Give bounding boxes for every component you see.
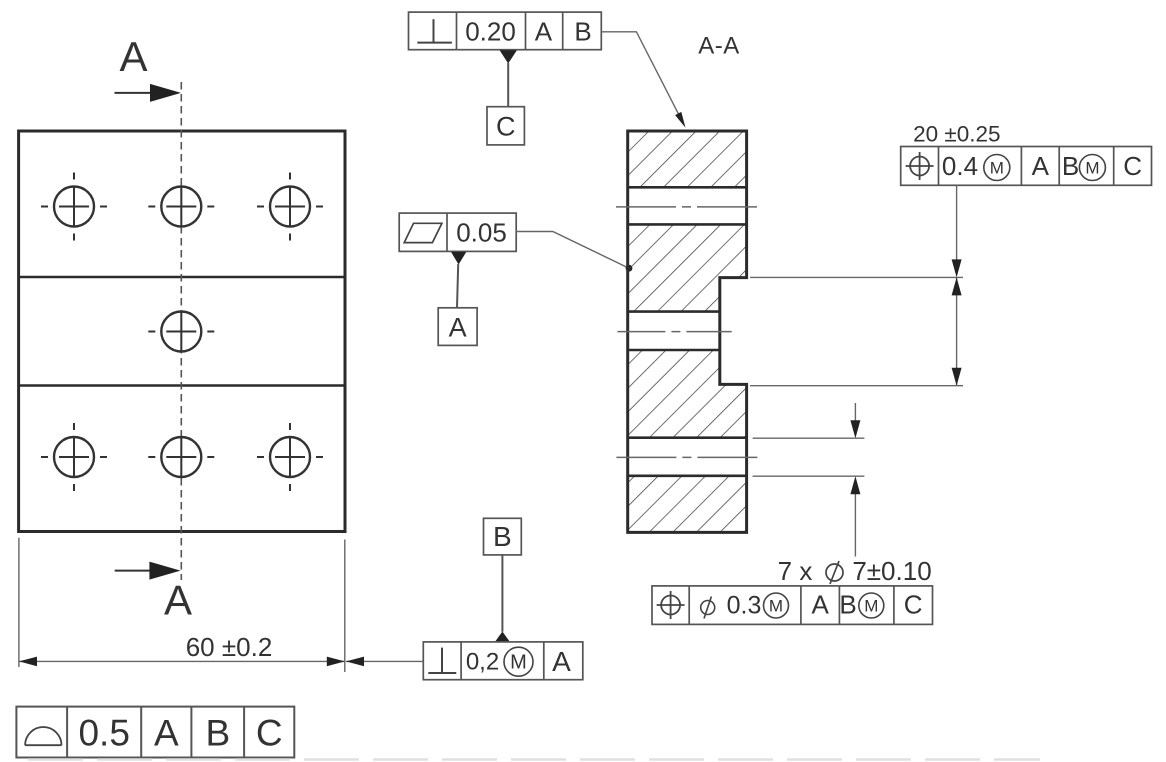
- perpendicularity symbol (bottom FCF): [428, 648, 456, 673]
- section outline: [628, 131, 747, 532]
- parallelism symbol: [404, 223, 442, 242]
- svg-text:C: C: [1123, 151, 1142, 181]
- position symbol (bottom FCF): [657, 591, 685, 619]
- datum triangle B: [495, 632, 510, 643]
- svg-text:20 ±0.25: 20 ±0.25: [913, 122, 1000, 147]
- svg-text:M: M: [510, 652, 527, 674]
- leader from FCF to extension line: [346, 657, 423, 667]
- section hatching: [620, 125, 755, 540]
- svg-text:A: A: [164, 577, 192, 624]
- svg-text:A-A: A-A: [698, 33, 740, 60]
- hole H1: [41, 173, 107, 241]
- datum leader B: [501, 555, 503, 632]
- front view edge line lower: [19, 384, 345, 386]
- perpendicularity symbol (top FCF): [417, 19, 452, 42]
- faint cropped caption line: [28, 758, 1040, 760]
- hole H4 (middle): [148, 312, 214, 352]
- centerline hole row 1: [616, 206, 759, 208]
- section arrow top: [115, 84, 182, 102]
- dia symbol: [701, 597, 715, 619]
- centerline hole row 2: [617, 331, 731, 333]
- hole H6: [148, 437, 214, 477]
- svg-text:0.05: 0.05: [456, 218, 507, 248]
- profile of a surface symbol: [25, 727, 61, 745]
- svg-text:7 x: 7 x: [778, 556, 813, 586]
- front view edge line upper: [19, 276, 345, 278]
- svg-text:M: M: [990, 159, 1004, 178]
- section arrow bottom: [115, 562, 181, 580]
- leader 0.05 to section left edge: [516, 232, 632, 272]
- front view outline: [19, 131, 345, 532]
- hole H7: [257, 423, 323, 491]
- svg-text:A: A: [812, 590, 830, 620]
- svg-text:A: A: [535, 17, 553, 47]
- datum triangle C: [500, 50, 517, 63]
- datum leader C: [507, 63, 509, 107]
- svg-text:0,2: 0,2: [466, 649, 499, 676]
- dim 20: dimension line: [952, 277, 962, 385]
- datum box C: [487, 107, 524, 145]
- dim text 7 x dia 7±0.10: [778, 556, 932, 586]
- dim 20: leader from FCF: [952, 185, 962, 277]
- svg-text:A: A: [1032, 151, 1050, 181]
- centerline hole row 3: [616, 456, 758, 458]
- dim 20: extension line bottom: [750, 385, 963, 387]
- FCF perpendicularity 0,2 M A (bottom): [423, 642, 583, 680]
- hole H2: [148, 187, 214, 227]
- svg-text:C: C: [496, 112, 516, 142]
- datum box A: [438, 308, 477, 346]
- dim 20: extension line top: [750, 276, 963, 278]
- svg-text:B: B: [839, 590, 856, 620]
- svg-text:B: B: [574, 17, 591, 47]
- dim 7: upper arrow: [850, 403, 860, 438]
- FCF position 0.4 (top right): [901, 147, 1152, 186]
- dim 7: lower arrow: [850, 476, 860, 556]
- FCF profile of surface 0.5 A B C (bottom left): [16, 707, 294, 758]
- section inner edge lines: [628, 187, 747, 476]
- dim 60: extension line left: [18, 538, 20, 667]
- section cutting line A-A (dashed): [180, 82, 182, 580]
- FCF parallelism 0.05: [399, 213, 516, 251]
- svg-text:B: B: [1062, 151, 1079, 181]
- svg-text:C: C: [256, 713, 283, 754]
- svg-text:C: C: [904, 590, 923, 620]
- datum leader A: [457, 264, 458, 308]
- dim 60: dimension line: [19, 657, 345, 667]
- svg-text:7±0.10: 7±0.10: [852, 556, 931, 586]
- svg-text:B: B: [493, 521, 512, 552]
- svg-text:M: M: [864, 597, 878, 616]
- position symbol (top right FCF): [906, 152, 934, 180]
- svg-text:B: B: [205, 713, 230, 754]
- svg-text:60 ±0.2: 60 ±0.2: [186, 632, 273, 662]
- dim 7: extension line bottom: [753, 475, 865, 477]
- svg-text:A: A: [449, 312, 467, 342]
- svg-text:A: A: [552, 646, 571, 677]
- FCF position 0.3 (bottom right): [652, 586, 933, 625]
- datum triangle A: [451, 252, 466, 265]
- svg-text:0.3: 0.3: [727, 592, 762, 620]
- svg-text:M: M: [769, 597, 783, 616]
- svg-text:0.20: 0.20: [465, 17, 516, 47]
- dim 7: extension line top: [753, 437, 865, 439]
- svg-text:A: A: [119, 33, 147, 80]
- FCF perpendicularity 0.20 A B (top): [409, 12, 602, 50]
- leader to section top: [601, 32, 685, 128]
- svg-text:M: M: [1085, 159, 1099, 178]
- hole H5: [41, 423, 107, 491]
- svg-text:0.5: 0.5: [78, 713, 129, 754]
- svg-text:A: A: [154, 713, 179, 754]
- datum box B: [484, 518, 522, 555]
- svg-text:0.4: 0.4: [942, 151, 978, 181]
- dim 60: extension line right: [344, 540, 346, 673]
- hole H3: [257, 173, 323, 241]
